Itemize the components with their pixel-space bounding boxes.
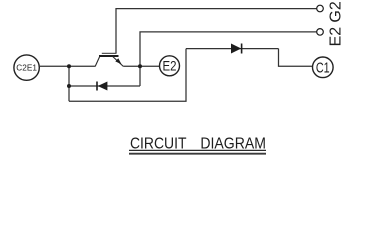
body bar xyxy=(99,55,119,57)
svg-text:C2E1: C2E1 xyxy=(16,63,37,72)
collector lead xyxy=(95,57,100,67)
wire main left (C2E1 to Q2 collector) xyxy=(40,65,96,67)
title underline 2 xyxy=(129,153,266,155)
wire C2E1 branch down xyxy=(68,66,70,101)
terminal G2 (small) xyxy=(317,5,324,12)
svg-text:E2: E2 xyxy=(328,27,345,47)
wire main right (Q2 emitter to E2) xyxy=(123,65,159,67)
wire D1 row xyxy=(186,48,279,50)
transistor Q2 (IGBT) xyxy=(95,53,123,66)
node junction dot (E2 / main) xyxy=(138,64,142,68)
svg-text:G2: G2 xyxy=(328,1,345,22)
wire D1 to C1 xyxy=(279,49,313,67)
wire freewheel diode row xyxy=(69,85,140,87)
wire E2 aux xyxy=(140,32,317,86)
terminal E2 xyxy=(160,56,180,76)
wire bottom run to D1 xyxy=(69,49,186,102)
diode D2 freewheel (anti-parallel, pointing left) xyxy=(97,82,107,91)
emitter lead xyxy=(113,57,124,67)
node junction dot (C2E1 / diode row) xyxy=(67,84,71,88)
wire G2 top xyxy=(116,9,317,54)
terminal E2 aux (small) xyxy=(317,29,324,36)
svg-text:C1: C1 xyxy=(316,60,330,76)
emitter arrow xyxy=(115,58,121,64)
svg-text:E2: E2 xyxy=(163,58,177,74)
title underline 1 xyxy=(129,149,266,151)
terminal C2E1 xyxy=(14,55,39,80)
diode D1 (pointing right) xyxy=(231,44,242,54)
terminal C1 xyxy=(313,57,334,78)
gate bar xyxy=(102,52,117,54)
node junction dot (C2E1 / main) xyxy=(67,64,71,68)
